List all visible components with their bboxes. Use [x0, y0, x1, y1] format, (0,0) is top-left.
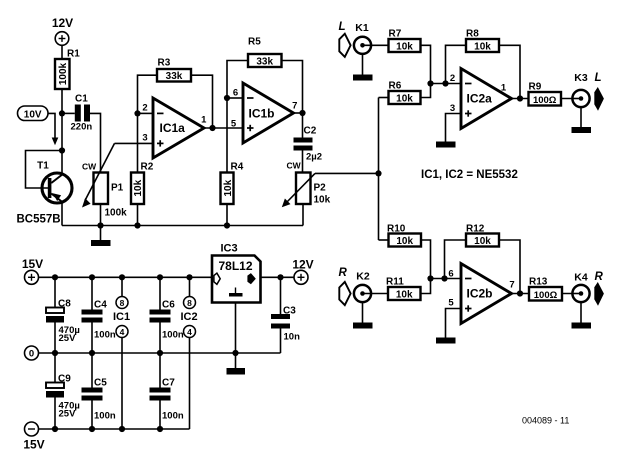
capacitor C8 470u electrolytic: [46, 277, 80, 353]
junction R4 bottom: [224, 222, 230, 228]
resistor R8 10k feedback: [446, 29, 521, 99]
svg-text:R4: R4: [231, 162, 244, 173]
node IC2a output: [517, 95, 523, 101]
junction R2 bottom: [134, 222, 140, 228]
wire pin2: [138, 112, 154, 114]
svg-text:2µ2: 2µ2: [306, 152, 322, 163]
wire 12V to R1: [61, 45, 63, 59]
svg-text:L: L: [339, 21, 346, 33]
connector K2: [354, 271, 371, 303]
svg-text:004089 - 11: 004089 - 11: [522, 416, 569, 426]
svg-text:10k: 10k: [474, 236, 491, 247]
svg-text:IC2: IC2: [180, 311, 197, 323]
svg-text:2: 2: [450, 73, 455, 84]
svg-text:2: 2: [142, 103, 147, 114]
svg-text:5: 5: [231, 119, 237, 130]
svg-text:C1: C1: [75, 94, 88, 105]
svg-text:C6: C6: [162, 300, 175, 311]
node base/collector tie: [59, 147, 65, 153]
input arrow R: [339, 282, 350, 305]
node R10/R11: [427, 275, 433, 281]
svg-text:IC2a: IC2a: [467, 92, 493, 106]
transistor T1 BC557B: [17, 151, 73, 226]
wire IC3 out to 12V: [261, 276, 295, 278]
capacitor C7 100n: [150, 353, 184, 429]
resistor R7 10k: [389, 29, 421, 53]
svg-text:IC1: IC1: [113, 311, 130, 323]
regulator IC3 78L12: [212, 243, 261, 303]
svg-text:100n: 100n: [94, 330, 116, 341]
wire bus vertical: [378, 98, 380, 241]
svg-text:100n: 100n: [162, 330, 184, 341]
wire IC3 ground: [235, 303, 237, 354]
wire bus to R10: [379, 239, 389, 241]
10V test-point label: [18, 106, 59, 145]
ground below 0 rail: [227, 353, 246, 375]
svg-text:CW: CW: [82, 162, 97, 172]
wire to IC2b pin6: [431, 278, 462, 280]
ground rail of input stage: [62, 225, 303, 227]
svg-text:CW: CW: [287, 161, 302, 171]
op-amp IC1a: [142, 98, 207, 158]
wire P1 bottom: [100, 204, 102, 226]
wire P2 bottom: [302, 204, 304, 226]
ground K2: [353, 302, 373, 328]
resistor R3 33k feedback: [138, 58, 213, 129]
svg-text:10k: 10k: [474, 42, 491, 53]
svg-text:220n: 220n: [71, 122, 93, 133]
wire R11 to node: [421, 279, 431, 294]
svg-text:100k: 100k: [58, 62, 69, 85]
ground symbol: [91, 226, 111, 247]
junction dots -15 rail: [52, 426, 58, 432]
wire IC2b out to R13: [512, 293, 530, 295]
ground IC2b pin5: [436, 338, 456, 344]
svg-text:R: R: [339, 267, 348, 279]
wire +15V rail: [39, 276, 213, 278]
svg-text:C5: C5: [94, 378, 107, 389]
resistor R4 10k: [221, 98, 244, 226]
svg-text:BC557B: BC557B: [17, 214, 61, 226]
svg-text:8: 8: [187, 298, 192, 308]
svg-text:6: 6: [233, 88, 238, 99]
wire pin6: [227, 97, 243, 99]
wire P1 wiper to pin3: [115, 142, 154, 144]
svg-text:33k: 33k: [166, 71, 183, 82]
svg-text:1: 1: [501, 83, 507, 94]
IC2 supply pins: [180, 277, 197, 429]
capacitor C5 100n: [82, 353, 116, 429]
node wiper bus: [375, 170, 381, 176]
wire IC1a out to IC1b pin5: [204, 127, 243, 129]
svg-text:7: 7: [292, 101, 297, 112]
svg-text:100k: 100k: [105, 208, 128, 219]
svg-text:IC1b: IC1b: [249, 107, 275, 121]
IC1 supply pins: [113, 277, 130, 429]
svg-text:33k: 33k: [256, 57, 273, 68]
wire bus to R6: [379, 97, 389, 99]
junction dots 0 rail: [52, 350, 58, 356]
svg-text:IC1, IC2 = NE5532: IC1, IC2 = NE5532: [421, 169, 518, 181]
wire R1 to node: [61, 89, 63, 151]
capacitor C4 100n: [82, 277, 116, 353]
svg-text:10k: 10k: [396, 42, 413, 53]
svg-text:100Ω: 100Ω: [533, 95, 557, 106]
svg-text:10k: 10k: [396, 94, 413, 105]
svg-text:6: 6: [448, 269, 453, 280]
terminal 0: [25, 346, 39, 360]
wire R13 to K4: [562, 293, 581, 295]
wire P2 wiper to node: [315, 172, 379, 174]
wire R10 to node: [421, 240, 431, 279]
capacitor C2 2u2: [294, 126, 323, 163]
node R8 tap: [442, 80, 448, 86]
resistor R6 10k: [389, 81, 421, 105]
wire C1 right to P1 top: [90, 113, 101, 172]
svg-text:100n: 100n: [162, 411, 184, 422]
svg-text:100Ω: 100Ω: [534, 290, 558, 301]
svg-text:7: 7: [509, 280, 514, 291]
potentiometer P2 10k: [282, 161, 331, 208]
svg-text:1: 1: [201, 115, 207, 126]
junction dots +15 rail: [52, 274, 58, 280]
terminal 12V out: [292, 258, 313, 285]
svg-text:0: 0: [29, 349, 34, 360]
svg-text:IC3: IC3: [220, 243, 237, 255]
node IC1b output: [299, 110, 305, 116]
wire R7 to node: [421, 45, 431, 83]
op-amp IC1b: [243, 83, 297, 143]
output arrow R: [594, 282, 604, 306]
svg-text:100n: 100n: [94, 411, 116, 422]
svg-text:10k: 10k: [133, 179, 144, 196]
svg-text:78L12: 78L12: [218, 259, 252, 273]
wire -15V rail: [39, 428, 190, 430]
resistor R11 10k: [386, 277, 421, 301]
connector K3: [572, 72, 589, 107]
wire R6 to node: [421, 84, 431, 98]
wire IC2b pin5 to ground: [446, 309, 462, 338]
svg-text:4: 4: [120, 327, 125, 337]
node IC2b output: [517, 290, 523, 296]
input arrow L: [339, 34, 350, 57]
node IC1a output: [209, 125, 215, 131]
svg-text:12V: 12V: [52, 16, 73, 30]
svg-text:R: R: [595, 271, 604, 283]
node R6/R7: [427, 80, 433, 86]
wire IC2a out to R9: [512, 98, 529, 100]
resistor R13 100R: [529, 277, 562, 301]
capacitor C6 100n: [150, 277, 184, 353]
svg-text:L: L: [595, 72, 602, 84]
capacitor C1 220n: [71, 94, 93, 133]
svg-text:4: 4: [187, 327, 192, 337]
svg-text:K1: K1: [355, 22, 369, 34]
ground IC2a pin3: [436, 142, 456, 148]
capacitor C3 10n: [271, 277, 300, 353]
svg-text:R2: R2: [141, 162, 154, 173]
op-amp IC2b: [448, 264, 514, 324]
svg-text:T1: T1: [37, 161, 49, 172]
resistor R5 33k feedback: [227, 37, 303, 114]
wire to IC2a pin2: [431, 83, 462, 85]
resistor R2 10k: [131, 162, 154, 205]
terminal -15V: [23, 422, 44, 452]
node C3 tap: [277, 274, 283, 280]
svg-text:K3: K3: [574, 72, 588, 84]
svg-text:C2: C2: [304, 126, 317, 137]
resistor R1 100k: [55, 49, 80, 90]
resistor R9 100R: [529, 82, 562, 106]
svg-text:K4: K4: [574, 272, 588, 284]
svg-text:C4: C4: [94, 300, 107, 311]
connector K1: [354, 22, 371, 54]
terminal +15V: [22, 257, 43, 284]
wire 0 rail: [39, 352, 281, 354]
svg-text:25V: 25V: [59, 409, 77, 420]
wire R2 top: [137, 113, 139, 172]
potentiometer P1 100k: [82, 143, 127, 218]
svg-text:R5: R5: [248, 37, 261, 48]
wire K1 to R7: [363, 44, 389, 46]
svg-text:25V: 25V: [59, 333, 77, 344]
svg-text:10k: 10k: [396, 236, 413, 247]
svg-text:3: 3: [142, 133, 147, 144]
svg-text:15V: 15V: [23, 438, 44, 452]
wire C1 left: [62, 112, 75, 114]
svg-text:10V: 10V: [24, 109, 42, 120]
op-amp IC2a: [450, 69, 512, 129]
junction P1 bottom: [97, 222, 103, 228]
svg-text:3: 3: [450, 103, 455, 114]
node pin6: [224, 95, 230, 101]
supply +12V top: [52, 16, 73, 45]
svg-text:10k: 10k: [314, 195, 331, 206]
node junction R1/C1: [59, 110, 65, 116]
ground K4: [572, 302, 592, 328]
node pin2: [134, 110, 140, 116]
output arrow L: [594, 87, 604, 111]
wire collector-base loop: [26, 151, 63, 189]
ground K3: [572, 107, 592, 133]
wire R9 to K3: [561, 98, 581, 100]
svg-text:10k: 10k: [396, 290, 413, 301]
svg-text:5: 5: [448, 298, 454, 309]
svg-text:IC1a: IC1a: [160, 121, 186, 135]
ground K1: [353, 54, 373, 81]
svg-text:P1: P1: [111, 183, 124, 194]
svg-text:K2: K2: [356, 271, 370, 283]
svg-text:10n: 10n: [284, 332, 301, 343]
svg-text:IC2b: IC2b: [467, 287, 493, 301]
svg-text:10k: 10k: [223, 179, 234, 196]
wire R2 bottom: [137, 204, 139, 226]
svg-text:8: 8: [120, 298, 125, 308]
node R12 tap: [441, 275, 447, 281]
svg-text:C7: C7: [162, 378, 175, 389]
wire IC1b out: [294, 112, 303, 114]
svg-text:R3: R3: [158, 58, 171, 69]
wire out down to C2: [302, 113, 304, 138]
connector K4: [572, 272, 589, 303]
wire K2 to R11: [363, 293, 389, 295]
svg-text:12V: 12V: [292, 258, 313, 272]
wire C2 to P2: [302, 151, 304, 173]
svg-text:P2: P2: [314, 183, 327, 194]
svg-text:15V: 15V: [22, 257, 43, 271]
capacitor C9 470u electrolytic: [46, 353, 80, 429]
wire IC2a pin3 to ground: [446, 114, 462, 142]
resistor R12 10k feedback: [445, 224, 521, 294]
resistor R10 10k: [387, 224, 421, 248]
